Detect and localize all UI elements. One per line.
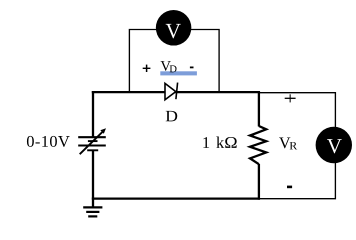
label 1 kOhm [203, 137, 236, 148]
voltmeter V1 (top, across diode) [156, 10, 192, 46]
wire: main loop left lower segment to ground [92, 150, 94, 207]
label - (cathode polarity of VD) [190, 67, 194, 69]
label D [166, 111, 178, 122]
wire: top voltmeter loop [129, 30, 219, 93]
label 0-10V [27, 136, 70, 147]
blue underline bar below VD [160, 71, 197, 75]
wire: main loop bottom segment [92, 197, 260, 199]
wire: main loop left upper segment [92, 91, 94, 137]
wire: main loop top segment [92, 91, 260, 93]
voltmeter V2 (right, across resistor) [316, 127, 352, 163]
label VR [279, 137, 297, 149]
label VD [161, 61, 177, 72]
wire: right voltmeter loop [260, 93, 336, 199]
label - (bottom polarity of VR) [287, 186, 292, 189]
resistor R 1 kOhm (zigzag in right branch of main loop) [250, 91, 266, 200]
ground [83, 207, 102, 216]
voltage source VS 0-10V (variable battery symbol with arrow) [78, 128, 106, 154]
label + (top polarity of VR) [285, 94, 296, 102]
label + (anode polarity of VD) [143, 65, 151, 72]
diode D (triangle and cathode bar on top wire) [165, 83, 178, 100]
